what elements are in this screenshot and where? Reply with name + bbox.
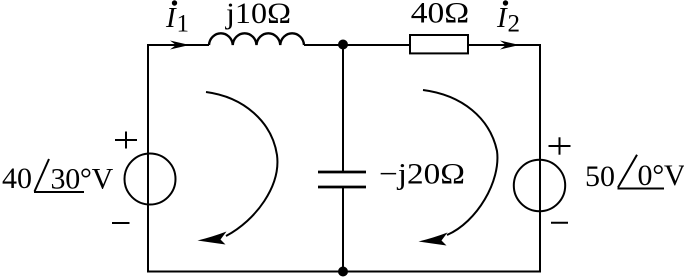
- wire inductor to top node: [304, 44, 343, 46]
- resistor R1: [410, 35, 468, 53]
- svg-text:I: I: [496, 2, 508, 34]
- current arrow I1 head: [170, 41, 190, 50]
- node junction dot bottom: [338, 267, 348, 277]
- wire middle lower (capacitor to bottom node): [342, 187, 344, 271]
- wire resistor to top-right corner: [468, 44, 540, 46]
- wire bottom: [147, 271, 541, 273]
- mesh 2 arrowhead: [419, 233, 448, 246]
- V2 plus sign: [549, 137, 571, 154]
- svg-text:40: 40: [2, 162, 32, 195]
- wire middle upper (top node to capacitor): [342, 45, 344, 172]
- wire right side: [539, 44, 541, 272]
- svg-text:0°V: 0°V: [638, 159, 684, 192]
- svg-text:30°V: 30°V: [51, 163, 114, 196]
- node junction dot top: [338, 40, 348, 50]
- inductor L1: [209, 33, 304, 45]
- svg-text:2: 2: [508, 11, 521, 38]
- svg-text:1: 1: [177, 11, 190, 38]
- V1 minus sign: [112, 222, 130, 224]
- svg-text:40Ω: 40Ω: [411, 0, 470, 30]
- V1 label 40∠30°V: [2, 159, 114, 196]
- current arrow I2 head: [500, 41, 520, 50]
- mesh 1 arrowhead: [198, 232, 227, 245]
- V2 label 50∠0°V: [585, 155, 684, 193]
- V2 minus sign: [551, 222, 568, 224]
- svg-text:50: 50: [585, 160, 615, 193]
- capacitor C1: [318, 172, 366, 187]
- svg-text:−j20Ω: −j20Ω: [379, 158, 465, 191]
- svg-text:j10Ω: j10Ω: [225, 0, 291, 30]
- wire top node to resistor: [343, 44, 410, 46]
- wire top-left segment: [148, 44, 209, 46]
- V1 plus sign: [115, 132, 137, 149]
- current label I1: [165, 0, 189, 37]
- svg-text:I: I: [165, 2, 177, 34]
- mesh 1 current arrow arc: [206, 92, 277, 236]
- voltage source V2 circle: [514, 160, 565, 211]
- voltage source V1 circle: [125, 154, 176, 205]
- current label I2: [496, 0, 520, 37]
- mesh 2 current arrow arc: [423, 90, 497, 235]
- wire left side: [147, 44, 149, 272]
